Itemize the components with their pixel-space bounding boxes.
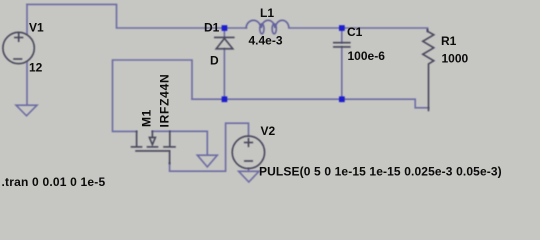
svg-text:12: 12 bbox=[29, 61, 43, 75]
diode D1 bbox=[215, 36, 234, 38]
svg-text:M1: M1 bbox=[140, 109, 154, 127]
wire M1 gate to V2 plus bbox=[170, 123, 249, 171]
ground for V1 bbox=[16, 105, 37, 116]
wire V2 bottom stub bbox=[248, 168, 250, 171]
voltage source V1 bbox=[3, 32, 34, 63]
wire D1 anode to bottom rail bbox=[223, 49, 225, 99]
wire D1 cathode stub bbox=[223, 28, 225, 37]
voltage source V2 bbox=[232, 136, 264, 168]
ground for M1 source bbox=[197, 155, 217, 167]
svg-text:PULSE(0 5 0 1e-15 1e-15 0.025e: PULSE(0 5 0 1e-15 1e-15 0.025e-3 0.05e-3… bbox=[259, 165, 502, 179]
wire C1 top stub bbox=[341, 28, 343, 43]
node D1 top junction bbox=[222, 25, 228, 31]
svg-text:100e-6: 100e-6 bbox=[348, 49, 386, 63]
svg-text:C1: C1 bbox=[347, 25, 363, 39]
wire M1 drain loop bbox=[113, 60, 193, 131]
node D1 bottom junction bbox=[222, 96, 228, 102]
svg-text:V2: V2 bbox=[261, 124, 276, 138]
transistor M1 bbox=[136, 131, 138, 146]
wire bottom rail with R1 jog bbox=[192, 99, 429, 108]
node junction dots bbox=[222, 25, 345, 102]
svg-text:.tran 0 0.01 0 1e-5: .tran 0 0.01 0 1e-5 bbox=[2, 175, 106, 189]
wire inductor to R1 top bbox=[289, 28, 428, 32]
svg-text:4.4e-3: 4.4e-3 bbox=[249, 34, 283, 48]
wire V1 top lead bbox=[26, 4, 28, 34]
svg-text:D1: D1 bbox=[204, 21, 220, 35]
svg-text:IRFZ44N: IRFZ44N bbox=[158, 74, 172, 128]
wire top rail from V1 bbox=[27, 4, 224, 28]
wire V1 bottom lead to ground bbox=[26, 62, 28, 105]
wire M1 source to ground bbox=[152, 131, 207, 155]
wire C1 bottom to rail bbox=[341, 47, 343, 99]
svg-text:V1: V1 bbox=[29, 21, 44, 35]
ground for V2 bbox=[239, 171, 259, 182]
node C1 bottom junction bbox=[339, 96, 345, 102]
svg-text:L1: L1 bbox=[260, 6, 274, 20]
svg-text:D: D bbox=[210, 54, 219, 68]
resistor R1 bbox=[423, 30, 434, 111]
wire node D1 to inductor bbox=[224, 27, 246, 29]
capacitor C1 bbox=[334, 42, 350, 44]
svg-text:R1: R1 bbox=[441, 34, 457, 48]
node C1 top junction bbox=[339, 25, 345, 31]
inductor L1 bbox=[246, 20, 289, 34]
svg-text:1000: 1000 bbox=[442, 52, 469, 66]
